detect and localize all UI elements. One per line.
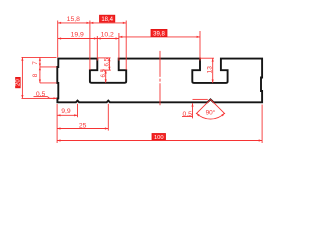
dimension 90 degrees (V-notch angle: legs, arc, arrows, text)	[196, 99, 225, 119]
svg-text:8: 8	[32, 73, 39, 77]
extension line V-notch 2 (slot1 center)	[107, 104, 109, 131]
extension line slot1 mouth left edge	[96, 36, 98, 61]
svg-text:90°: 90°	[206, 109, 216, 117]
svg-text:13: 13	[206, 66, 213, 74]
dimension 6,5 upper (slot1 neck depth)	[104, 57, 111, 70]
profile outline: plate cross-section, 2 T-slots, 3 V-notches, edge steps	[57, 59, 262, 103]
svg-text:7: 7	[32, 61, 39, 65]
dimension 13 (slot2 total depth)	[206, 58, 213, 83]
dimension 25 (corner to slot1 center notch)	[57, 123, 108, 130]
svg-text:100: 100	[154, 135, 164, 141]
extension line top surface (left dims)	[22, 56, 57, 58]
dimension 18,4 boxed/highlighted (slot1 cavity width)	[90, 15, 126, 24]
extension line left edge lower step	[22, 97, 57, 99]
dimension 6,5 lower (slot1 cavity depth)	[100, 68, 107, 82]
svg-text:15,8: 15,8	[67, 16, 80, 23]
svg-text:20: 20	[16, 79, 22, 86]
centerline (vertical dash-dot axis at x=160)	[159, 51, 161, 105]
extension line bottom-right corner	[261, 105, 263, 144]
extension line slot2 mouth left edge	[199, 31, 201, 61]
extension line left edge step top	[40, 66, 57, 68]
note 0,5 left (edge step offset, underlined text with leader arrow)	[34, 91, 57, 100]
extension line slot1 cavity right wall	[125, 21, 127, 70]
dimension 10,2 (slot1 mouth width)	[97, 32, 119, 40]
dimension 9,9 (corner to first V-notch)	[57, 108, 77, 116]
extension line slot1 cavity left wall	[89, 21, 91, 71]
svg-text:39,8: 39,8	[153, 31, 165, 37]
note 0,5 bottom (V-notch depth, underlined text with references)	[182, 99, 208, 118]
extension line slot1 top reference	[98, 57, 111, 59]
svg-text:6,5: 6,5	[104, 57, 111, 66]
dimension 20 boxed/highlighted (height to lower step)	[16, 57, 24, 98]
extension line slot2 top reference	[200, 57, 214, 59]
dimension 39,8 boxed/highlighted (slot1 to slot2 spacing)	[119, 29, 200, 38]
extension line bottom-left corner (bottom dims)	[56, 104, 58, 143]
extension line left edge (top dims)	[57, 21, 59, 58]
dimension 8 (step band height)	[32, 67, 41, 83]
dimension 100 boxed/highlighted (overall width)	[57, 134, 262, 142]
svg-text:25: 25	[79, 123, 87, 130]
dimension 19,9 (left edge to slot1 mouth)	[58, 32, 98, 40]
extension line left edge step bottom	[40, 82, 57, 84]
extension line slot1 neck ledge reference	[101, 69, 111, 71]
svg-text:19,9: 19,9	[71, 32, 84, 39]
dimension 7 (top to step)	[32, 57, 41, 67]
extension line V-notch 1	[77, 104, 79, 118]
dimension 15,8 (left edge to slot1 cavity wall)	[58, 16, 90, 24]
svg-text:10,2: 10,2	[101, 32, 114, 39]
svg-text:6,5: 6,5	[100, 68, 107, 77]
extension line slot1 mouth right edge	[118, 33, 120, 61]
svg-text:18,4: 18,4	[101, 17, 113, 23]
svg-text:9,9: 9,9	[61, 108, 71, 115]
